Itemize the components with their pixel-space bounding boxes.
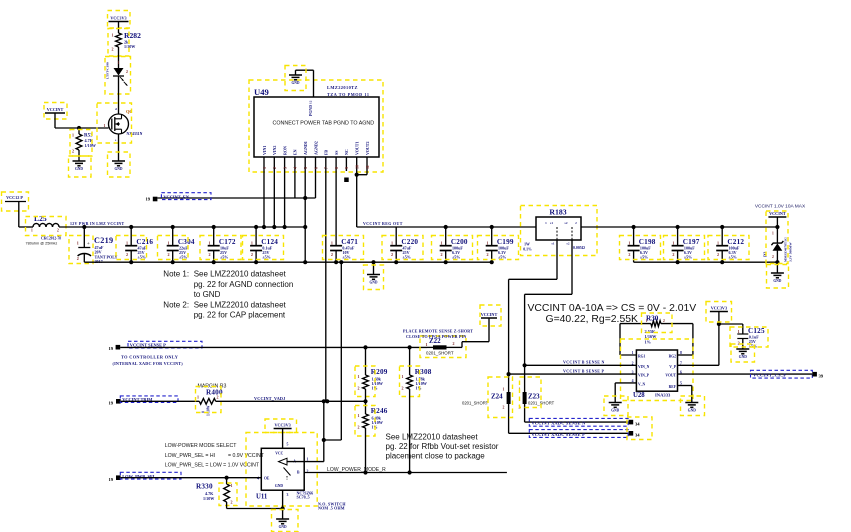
svg-text:2: 2	[217, 395, 219, 400]
svg-text:1/10W: 1/10W	[203, 496, 215, 501]
svg-text:5: 5	[303, 167, 308, 169]
wire	[118, 22, 120, 34]
svg-text:19: 19	[109, 400, 114, 405]
svg-text:GND: GND	[739, 355, 747, 359]
pin 4 EN	[294, 157, 296, 171]
svg-text:±5%: ±5%	[179, 254, 187, 259]
svg-text:2: 2	[358, 386, 360, 391]
svg-text:1: 1	[486, 241, 488, 246]
svg-text:1: 1	[628, 241, 630, 246]
svg-text:0.1%: 0.1%	[523, 248, 532, 252]
svg-text:GND: GND	[275, 484, 284, 488]
svg-text:1: 1	[307, 458, 309, 462]
wire REF to ground	[678, 385, 692, 387]
analog switch U11	[246, 433, 317, 507]
svg-text:to GND: to GND	[194, 290, 221, 299]
svg-text:SS: SS	[334, 150, 339, 155]
svg-text:1: 1	[331, 241, 333, 246]
svg-text:VCCINT: VCCINT	[769, 211, 786, 216]
svg-text:EN: EN	[293, 149, 298, 155]
svg-text:1: 1	[440, 241, 442, 246]
resistor R400	[121, 400, 200, 402]
capacitor C216	[130, 227, 132, 246]
wire	[365, 389, 367, 401]
svg-text:1: 1	[772, 232, 774, 236]
svg-text:VCCINT REG OUT: VCCINT REG OUT	[363, 222, 403, 226]
svg-text:Z23: Z23	[528, 393, 540, 401]
svg-text:CKC2012-78: CKC2012-78	[41, 237, 61, 241]
svg-text:pg. 22 for CAP placement: pg. 22 for CAP placement	[194, 311, 286, 320]
capacitor C199	[491, 227, 493, 246]
svg-text:2: 2	[402, 386, 404, 391]
svg-text:19: 19	[109, 477, 114, 482]
svg-text:±5%: ±5%	[403, 254, 411, 259]
svg-text:s1: s1	[550, 221, 553, 225]
wire VCCINT REG OUT	[357, 226, 536, 228]
capacitor C220	[395, 227, 397, 246]
svg-text:VCCINT B SENSE N: VCCINT B SENSE N	[563, 360, 605, 365]
svg-text:R30: R30	[646, 315, 659, 323]
svg-text:VCCINT XADC SENSE N: VCCINT XADC SENSE N	[532, 421, 587, 426]
wire	[340, 262, 342, 440]
zener diode D2	[776, 227, 778, 243]
wire FB	[325, 171, 327, 401]
svg-text:U11: U11	[256, 494, 268, 501]
capacitor C304	[172, 227, 174, 246]
svg-text:3: 3	[282, 167, 287, 169]
wire	[409, 389, 411, 473]
svg-text:1: 1	[72, 133, 74, 138]
ground	[73, 160, 86, 162]
svg-text:2: 2	[358, 425, 360, 430]
svg-text:GND: GND	[773, 279, 781, 283]
svg-text:2: 2	[231, 500, 233, 505]
svg-text:2: 2	[57, 229, 59, 233]
svg-text:VOUT1: VOUT1	[355, 142, 360, 155]
svg-text:VCCINT: VCCINT	[47, 107, 64, 112]
svg-text:1: 1	[391, 241, 393, 246]
wire VCCINT_VADJ	[216, 400, 366, 402]
svg-text:VCCINT_EN: VCCINT_EN	[163, 194, 189, 199]
jumper Z22	[433, 345, 447, 349]
wire GND pin	[282, 490, 284, 519]
svg-text:2: 2	[77, 256, 79, 261]
svg-text:RG1: RG1	[638, 355, 646, 359]
wire	[78, 150, 80, 161]
svg-text:GND: GND	[370, 281, 378, 285]
svg-text:1: 1	[231, 483, 233, 488]
wire VCCINT XADC SENSE N	[525, 421, 629, 423]
svg-text:SC70_5: SC70_5	[297, 495, 310, 500]
wire VIN_N	[525, 364, 637, 366]
svg-text:R308: R308	[415, 368, 432, 376]
svg-text:AGND1: AGND1	[303, 141, 308, 155]
svg-text:TZA TO PMOD 11: TZA TO PMOD 11	[327, 92, 370, 97]
svg-text:LMZ22010TZ: LMZ22010TZ	[327, 85, 358, 90]
svg-text:1: 1	[402, 374, 404, 379]
svg-text:1: 1	[77, 241, 79, 246]
resistor R308	[409, 347, 411, 375]
svg-text:1: 1	[251, 241, 253, 246]
wire VIN pins	[263, 171, 265, 227]
resistor R183 current sense	[521, 206, 598, 256]
svg-text:1: 1	[31, 229, 33, 233]
svg-text:GND: GND	[279, 525, 287, 529]
svg-text:0201_SHORT: 0201_SHORT	[426, 351, 454, 356]
capacitor C200	[445, 227, 447, 246]
svg-text:2: 2	[717, 252, 719, 257]
svg-text:10: 10	[355, 165, 360, 169]
svg-text:d: d	[115, 107, 117, 111]
svg-text:V_P: V_P	[669, 365, 677, 369]
svg-text:placement close to package: placement close to package	[386, 452, 486, 461]
svg-text:12V PWR IN LMZ VCCINT: 12V PWR IN LMZ VCCINT	[70, 222, 124, 226]
svg-text:1: 1	[197, 395, 199, 400]
svg-text:GND: GND	[611, 409, 619, 413]
svg-text:GND: GND	[292, 81, 300, 85]
svg-text:5: 5	[287, 443, 289, 447]
svg-text:1: 1	[358, 374, 360, 379]
svg-text:PGND: PGND	[309, 105, 313, 116]
svg-text:2917: 2917	[95, 259, 103, 264]
svg-text:8: 8	[680, 351, 682, 355]
wire sense s2	[571, 240, 573, 294]
svg-text:1: 1	[632, 351, 634, 355]
svg-text:1: 1	[717, 241, 719, 246]
wire output rail right	[581, 226, 777, 228]
svg-text:RG2: RG2	[669, 355, 677, 359]
svg-text:See LMZ22010 datasheet: See LMZ22010 datasheet	[194, 270, 287, 279]
wire VOUT join	[356, 171, 358, 227]
svg-text:2: 2	[208, 252, 210, 257]
svg-text:U28: U28	[633, 392, 645, 399]
svg-text:R246: R246	[371, 407, 388, 415]
svg-text:34: 34	[635, 433, 640, 438]
wire AGND	[304, 171, 306, 262]
svg-text:2: 2	[772, 255, 774, 259]
wire VCCINT XADC SENSE P	[509, 432, 629, 434]
svg-text:1/10W: 1/10W	[124, 44, 136, 49]
IC U49 LMZ22010	[249, 80, 383, 172]
svg-text:VCCINT_CS_P: VCCINT_CS_P	[753, 373, 786, 378]
svg-text:1: 1	[646, 319, 648, 323]
inductor L25	[33, 223, 40, 227]
wire LOW_POWER_MODE_R	[304, 472, 507, 474]
svg-text:Note 1:: Note 1:	[163, 270, 189, 279]
svg-text:MMSZ4678T1G: MMSZ4678T1G	[784, 237, 788, 262]
svg-text:V_N: V_N	[638, 383, 646, 387]
svg-text:Note 2:: Note 2:	[163, 300, 189, 309]
pin 6 AGND2	[315, 157, 317, 171]
svg-text:VCC12 P: VCC12 P	[6, 195, 23, 200]
wire	[118, 76, 120, 114]
svg-text:s2: s2	[565, 221, 568, 225]
ground	[685, 402, 698, 404]
svg-text:TO CONTROLLER ONLY: TO CONTROLLER ONLY	[121, 355, 179, 360]
pin 5 AGND1	[304, 157, 306, 171]
pin 2 VIN2	[273, 157, 275, 171]
svg-text:1: 1	[738, 329, 740, 334]
jumper Z24	[507, 372, 511, 376]
svg-text:±5%: ±5%	[498, 254, 506, 259]
svg-text:R209: R209	[371, 368, 388, 376]
svg-text:GND: GND	[688, 409, 696, 413]
svg-text:1: 1	[358, 413, 360, 418]
wire	[719, 323, 743, 325]
wire	[54, 113, 56, 128]
svg-text:CONNECT POWER TAB PGND TO AGND: CONNECT POWER TAB PGND TO AGND	[273, 121, 375, 127]
svg-text:R183: R183	[549, 208, 566, 217]
svg-text:34: 34	[635, 422, 640, 427]
svg-text:12: 12	[309, 100, 313, 104]
svg-text:0.005Ω: 0.005Ω	[573, 246, 585, 250]
svg-text:GND: GND	[75, 167, 83, 171]
wire	[365, 428, 367, 473]
svg-text:(INTERNAL XADC FOR VCCINT): (INTERNAL XADC FOR VCCINT)	[113, 361, 184, 366]
svg-text:0201_SHORT: 0201_SHORT	[462, 401, 489, 406]
svg-text:s2: s2	[567, 242, 570, 246]
capacitor C124	[255, 227, 257, 246]
svg-text:3: 3	[287, 493, 289, 497]
ground	[373, 262, 375, 274]
capacitor C125	[742, 324, 744, 334]
svg-text:±5%: ±5%	[220, 254, 228, 259]
svg-text:1%: 1%	[416, 385, 422, 390]
pin 7 FB	[325, 157, 327, 171]
svg-text:VIN_N: VIN_N	[638, 365, 650, 369]
svg-text:OE: OE	[264, 477, 270, 481]
capacitor C219	[83, 227, 85, 248]
resistor R53	[78, 128, 80, 134]
capacitor C212	[721, 227, 723, 246]
svg-text:Z24: Z24	[491, 393, 503, 401]
svg-text:±5%: ±5%	[640, 254, 648, 259]
svg-text:s1: s1	[552, 242, 555, 246]
svg-text:1: 1	[262, 167, 267, 169]
wire VCCINT_CS_P	[678, 373, 813, 375]
svg-text:1: 1	[208, 241, 210, 246]
svg-text:2: 2	[251, 252, 253, 257]
svg-text:±5%: ±5%	[262, 254, 270, 259]
svg-text:pg. 22 for Rfbb Vout-set resis: pg. 22 for Rfbb Vout-set resistor	[386, 442, 499, 451]
svg-text:2: 2	[272, 167, 277, 169]
svg-text:2: 2	[126, 252, 128, 257]
svg-text:NX4331N: NX4331N	[127, 132, 143, 136]
svg-text:VCCINT XADC SENSE P: VCCINT XADC SENSE P	[532, 432, 586, 437]
wire	[118, 47, 120, 68]
svg-text:1W: 1W	[524, 243, 530, 247]
wire	[18, 202, 20, 228]
svg-text:VCC3V3: VCC3V3	[274, 423, 290, 428]
wire EN net	[157, 197, 315, 199]
capacitor C198	[633, 227, 635, 246]
svg-text:LOW_PWR_SEL = HI: LOW_PWR_SEL = HI	[165, 453, 215, 459]
pin 10 VOUT1	[356, 157, 358, 171]
svg-text:VCCINT 1.0V 10A MAX: VCCINT 1.0V 10A MAX	[755, 204, 806, 210]
svg-text:REF: REF	[669, 385, 677, 389]
svg-text:RON: RON	[282, 146, 287, 155]
svg-text:±5%: ±5%	[729, 254, 737, 259]
svg-text:780ohm @ 25MHz: 780ohm @ 25MHz	[26, 242, 58, 246]
svg-text:U49: U49	[254, 87, 269, 97]
svg-text:LTST-C190: LTST-C190	[106, 62, 110, 79]
resistor R30	[620, 354, 636, 356]
wire OE	[121, 477, 262, 479]
pin 12 PGND	[313, 70, 315, 97]
wire ground rail	[84, 261, 491, 263]
svg-text:LOW-POWER MODE SELECT: LOW-POWER MODE SELECT	[165, 443, 238, 449]
svg-text:39: 39	[819, 374, 824, 379]
jumper Z23	[523, 363, 527, 367]
pin 11 VOUT2	[366, 157, 368, 171]
svg-text:D2: D2	[763, 252, 768, 257]
wire	[118, 134, 120, 161]
svg-text:pg. 22 for AGND connection: pg. 22 for AGND connection	[194, 280, 294, 289]
svg-text:VCCINT 0A-10A => CS = 0V - 2.0: VCCINT 0A-10A => CS = 0V - 2.01V	[528, 303, 697, 314]
svg-text:L25: L25	[34, 214, 47, 223]
svg-text:1/10W: 1/10W	[207, 405, 211, 416]
no-connect pin 9	[344, 178, 349, 183]
svg-text:2: 2	[503, 406, 505, 410]
capacitor C172	[213, 227, 215, 246]
wire 12V PWR IN LMZ VCCINT	[59, 226, 305, 228]
svg-text:2: 2	[440, 252, 442, 257]
svg-text:2: 2	[672, 252, 674, 257]
ground	[112, 160, 125, 162]
svg-text:VOUT2: VOUT2	[365, 142, 370, 155]
svg-text:R330: R330	[196, 483, 213, 491]
svg-text:1%: 1%	[645, 339, 651, 344]
svg-text:2: 2	[331, 252, 333, 257]
resistor R282	[116, 33, 122, 47]
ground	[609, 402, 622, 404]
svg-text:1: 1	[104, 124, 106, 128]
svg-text:1: 1	[503, 388, 505, 392]
pin 3 RON	[284, 157, 286, 171]
svg-text:2: 2	[167, 252, 169, 257]
svg-text:VCCINT_VADJ: VCCINT_VADJ	[254, 396, 285, 401]
svg-text:INA333: INA333	[655, 393, 671, 398]
wire V_P supply	[678, 364, 719, 366]
svg-text:2: 2	[126, 70, 128, 74]
svg-text:CLOSE TO FPGA POWER PIN: CLOSE TO FPGA POWER PIN	[406, 334, 466, 339]
svg-text:LOW_POWER_MODE_R: LOW_POWER_MODE_R	[327, 467, 386, 473]
svg-text:1: 1	[672, 241, 674, 246]
svg-text:1: 1	[167, 241, 169, 246]
svg-text:±5%: ±5%	[684, 254, 692, 259]
svg-text:1: 1	[112, 33, 114, 38]
resistor R246	[365, 401, 367, 414]
svg-text:VIN1: VIN1	[262, 146, 267, 155]
svg-text:VIN2: VIN2	[272, 146, 277, 155]
wire sense s1	[556, 240, 558, 279]
svg-text:8: 8	[334, 167, 339, 169]
wire	[296, 69, 314, 71]
capacitor C197	[677, 227, 679, 246]
svg-text:FB: FB	[324, 150, 329, 155]
svg-text:9: 9	[344, 167, 349, 169]
svg-text:+: +	[87, 241, 90, 247]
capacitor C471	[330, 245, 342, 247]
wire V_N to ground	[615, 382, 636, 384]
svg-text:VOUT: VOUT	[665, 374, 676, 378]
svg-text:2: 2	[391, 252, 393, 257]
svg-text:VCC3V3: VCC3V3	[711, 306, 727, 311]
svg-text:See LMZ22010 datasheet: See LMZ22010 datasheet	[194, 300, 287, 309]
pin 8 SS	[335, 157, 337, 171]
svg-text:1: 1	[126, 241, 128, 246]
svg-text:2: 2	[663, 319, 665, 323]
svg-text:2: 2	[486, 252, 488, 257]
transistor Q6	[109, 114, 129, 134]
svg-text:1/10W: 1/10W	[85, 143, 97, 148]
svg-text:AGND2: AGND2	[313, 141, 318, 155]
svg-text:1: 1	[426, 342, 428, 347]
wire remote sense	[120, 346, 427, 348]
svg-text:±5%: ±5%	[138, 254, 146, 259]
svg-text:19: 19	[109, 346, 114, 351]
wire VIN_P	[509, 373, 637, 375]
svg-text:4: 4	[293, 167, 298, 169]
wire	[461, 342, 463, 348]
svg-text:See LMZ22010 datasheet: See LMZ22010 datasheet	[386, 433, 479, 442]
resistor R330	[226, 478, 228, 484]
svg-text:19: 19	[146, 197, 151, 202]
svg-text:2: 2	[72, 149, 74, 154]
svg-text:11: 11	[365, 165, 370, 169]
op-amp U28 INA333	[621, 339, 694, 401]
wire SS	[335, 171, 337, 246]
pin 1 VIN1	[263, 157, 265, 171]
svg-text:7: 7	[324, 167, 329, 169]
wire	[226, 502, 228, 509]
svg-text:2: 2	[453, 341, 455, 346]
svg-text:3.3V 500MW: 3.3V 500MW	[789, 242, 793, 262]
svg-text:2: 2	[112, 47, 114, 52]
svg-text:VCCINT: VCCINT	[481, 312, 498, 317]
wire pin A riser	[304, 461, 324, 463]
svg-text:VCCINT B SENSE P: VCCINT B SENSE P	[563, 368, 605, 373]
svg-text:VIN_P: VIN_P	[638, 374, 650, 378]
svg-text:±5%: ±5%	[452, 254, 460, 259]
svg-text:VCC3V3: VCC3V3	[110, 16, 126, 21]
svg-text:2: 2	[628, 252, 630, 257]
ground	[776, 262, 778, 273]
ground	[736, 348, 749, 350]
svg-text:1: 1	[118, 61, 120, 65]
svg-text:20V: 20V	[95, 249, 102, 254]
svg-text:NC: NC	[344, 149, 349, 155]
svg-text:±5%: ±5%	[342, 254, 350, 259]
svg-text:NOM .5 OHM: NOM .5 OHM	[318, 506, 345, 511]
svg-text:PLACE REMOTE SENSE Z-SHORT: PLACE REMOTE SENSE Z-SHORT	[403, 329, 473, 334]
resistor R209	[365, 347, 367, 375]
pin 9 NC	[345, 157, 347, 171]
svg-text:GND: GND	[115, 167, 123, 171]
wire ground rail right	[634, 261, 778, 263]
ground	[295, 70, 297, 75]
svg-text:VCC: VCC	[275, 452, 283, 456]
svg-text:6: 6	[313, 167, 318, 169]
ground	[276, 518, 289, 520]
